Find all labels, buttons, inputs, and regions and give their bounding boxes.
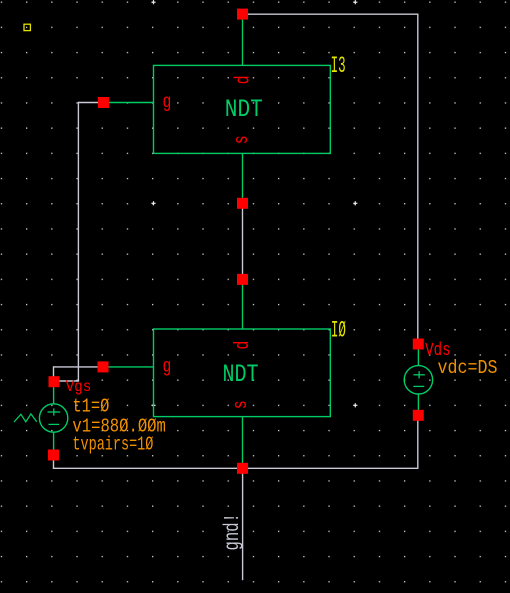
I0 drain stub [242,279,244,329]
junction: mid net B [237,274,248,285]
wire: between mid junctions [242,203,244,279]
source Vds body circle [404,366,432,394]
svg-text:d: d [232,341,255,350]
wire: g2 junction to Vgs column [54,366,104,368]
pin square: Vds minus [413,410,424,421]
wire: right rail down to Vds plus pin [417,14,419,345]
pin square: Vgs minus [48,450,59,461]
instance I3 NDT block body [154,65,331,153]
svg-text:g: g [163,91,172,113]
grid major marker [151,201,155,205]
wire: gate net g1 junction to left [78,102,103,104]
svg-text:tvpairs=1Ø: tvpairs=1Ø [72,434,153,456]
wire: Vgs minus down to bottom rail [53,455,55,468]
svg-text:Vgs: Vgs [66,378,92,396]
junction: top net [237,9,248,20]
Vds minus sign [413,385,424,387]
I0 source stub [242,417,244,469]
Vgs plus sign [48,408,61,415]
I3 gate stub [104,102,154,104]
I3 source stub [242,153,244,203]
grid major marker [353,0,357,4]
svg-text:NDT: NDT [225,95,263,124]
Vgs top stub [53,382,55,404]
junction: gate net g1 [98,97,109,108]
Vds plus sign [413,371,424,378]
svg-text:vdc=DS: vdc=DS [438,357,498,379]
Vds top stub [417,344,419,366]
wire: gnd stub down from bottom junction [242,468,244,580]
junction: mid net A [237,198,248,209]
wire: left vertical down to Vgs plus [77,102,79,381]
svg-text:d: d [233,75,256,84]
I0 gate stub [103,366,154,368]
wire: bottom rail [53,467,419,469]
svg-text:g: g [163,356,172,378]
grid major marker [353,403,357,407]
wire: Vds minus down to bottom rail [417,415,419,469]
wire: into Vgs plus pin [54,380,79,382]
Vgs minus sign [48,423,59,425]
svg-text:s: s [231,135,254,144]
pin square: Vds plus [413,339,424,350]
grid major marker [151,403,155,407]
junction: bottom rail gnd [237,463,248,474]
wire: down into Vgs plus pin [53,366,55,382]
Vds bottom stub [417,394,419,416]
Vgs pwl waveform icon [14,414,37,422]
junction: gate net g2 [98,361,109,372]
svg-text:I3: I3 [331,53,346,79]
svg-text:IØ: IØ [331,318,346,344]
svg-text:NDT: NDT [223,360,259,389]
Vgs bottom stub [53,432,55,455]
source Vgs body circle [39,404,67,432]
pin square: Vgs plus [49,376,60,387]
svg-text:s: s [230,400,253,409]
instance I0 NDT block body [154,329,331,417]
svg-text:t1=Ø: t1=Ø [72,396,109,418]
I3 drain stub [242,14,244,65]
grid major marker [151,0,155,4]
origin marker [24,24,30,30]
svg-text:gnd!: gnd! [222,513,245,550]
wire: net from top junction to right rail [243,13,418,15]
grid major marker [353,201,357,205]
